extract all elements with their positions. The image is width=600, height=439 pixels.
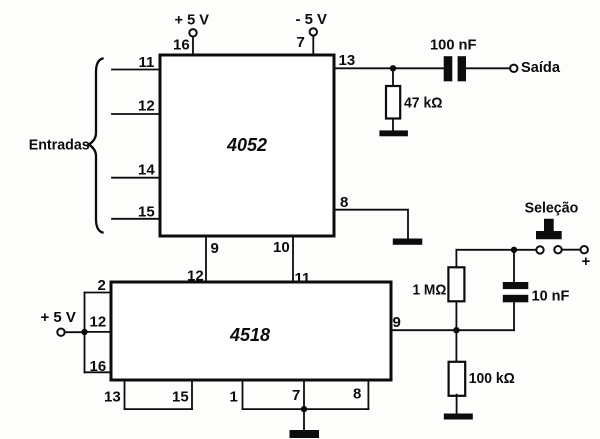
wire input pin 11 [112, 69, 160, 71]
wire junction to resistor R1 [392, 72, 394, 87]
svg-text:14: 14 [138, 162, 155, 179]
wire node up to R2 [455, 250, 457, 267]
wire U1 pin 9 to U2 pin 12 [205, 236, 207, 282]
wire pin 8 stub down [367, 380, 369, 409]
terminal Saída [510, 65, 517, 72]
svg-text:16: 16 [90, 358, 107, 375]
wire +5V bus (U2 left) [84, 293, 86, 373]
wire pin 2 stub [85, 292, 112, 294]
resistor R3 100k body [449, 362, 466, 396]
switch S1 contact left [536, 246, 543, 253]
terminal + supply [581, 246, 588, 253]
wire pin 7 stub down [303, 380, 305, 409]
wire node down to R3 [455, 330, 457, 362]
ground (U2) [290, 430, 320, 438]
wire R1 to ground [392, 119, 394, 131]
wire pin 12 stub [85, 331, 112, 333]
wire R3 to ground [456, 395, 458, 414]
svg-text:13: 13 [339, 52, 356, 69]
svg-text:100 kΩ: 100 kΩ [469, 370, 515, 387]
wire pin 7 stub [312, 36, 314, 55]
wire pin 16 stub [192, 37, 194, 55]
svg-text:9: 9 [211, 240, 219, 257]
wire top rail [456, 249, 536, 251]
terminal +5V (U2) [57, 329, 64, 336]
wire capacitor to output terminal [466, 67, 510, 69]
terminal -5V (top) [310, 28, 317, 35]
svg-text:1: 1 [230, 389, 238, 406]
junction pin7/ground [301, 406, 307, 412]
svg-text:16: 16 [173, 37, 190, 54]
wire pin 1 stub down [242, 380, 244, 409]
svg-text:47 kΩ: 47 kΩ [404, 95, 443, 112]
wire input pin 12 [112, 113, 160, 115]
svg-text:- 5 V: - 5 V [296, 11, 328, 28]
wire pin 15 stub down [191, 380, 193, 409]
svg-text:4518: 4518 [229, 325, 270, 345]
svg-text:10 nF: 10 nF [532, 288, 570, 305]
svg-text:+: + [582, 253, 591, 270]
wire bracket 13-15 [125, 408, 193, 410]
capacitor C1 100nF plates [444, 56, 453, 81]
svg-text:8: 8 [353, 386, 361, 403]
svg-text:13: 13 [104, 389, 121, 406]
resistor R2 1M body [448, 267, 464, 301]
wire pin 8 to ground [334, 210, 408, 239]
wire bracket 1-7-8 [243, 408, 369, 410]
svg-text:1 MΩ: 1 MΩ [413, 282, 447, 299]
wire R2 to node [455, 301, 457, 330]
svg-text:9: 9 [393, 314, 401, 331]
svg-text:+ 5 V: + 5 V [175, 11, 210, 28]
svg-text:15: 15 [172, 389, 189, 406]
ground (R1) [379, 130, 408, 136]
svg-text:12: 12 [90, 314, 107, 331]
capacitor C2 10nF plates [503, 282, 529, 289]
wire input pin 15 [112, 218, 160, 220]
junction pin13/R47k [390, 65, 396, 71]
ground (R3) [444, 414, 473, 420]
wire contact to terminal [562, 249, 581, 251]
junction bus/pin12 [81, 329, 87, 335]
svg-text:15: 15 [138, 204, 155, 221]
wire C2 to node [513, 302, 515, 330]
svg-text:11: 11 [139, 54, 155, 71]
wire pin 16 stub (U2) [85, 371, 112, 373]
junction rail/C2 [511, 247, 517, 253]
svg-text:100 nF: 100 nF [430, 37, 477, 54]
wire U1 pin 10 to U2 pin 11 [292, 236, 294, 282]
svg-text:10: 10 [273, 239, 290, 256]
wire pin7 junction to ground [303, 409, 305, 430]
wire pin 13 stub down [124, 380, 126, 409]
svg-text:12: 12 [138, 98, 155, 115]
svg-text:7: 7 [292, 387, 300, 404]
wire pin 9 net [391, 329, 514, 331]
switch S1 contact right [554, 246, 561, 253]
wire pin 13 to capacitor [334, 67, 444, 69]
op-amp U2 4518 body [111, 282, 391, 380]
svg-text:Seleção: Seleção [525, 200, 579, 217]
wire input pin 14 [112, 177, 160, 179]
svg-text:8: 8 [340, 194, 348, 211]
svg-text:+ 5 V: + 5 V [41, 309, 76, 326]
terminal +5V (top) [189, 29, 196, 36]
resistor R1 47k body [386, 86, 400, 119]
svg-text:Saída: Saída [521, 59, 561, 76]
op-amp U1 4052 body [160, 55, 334, 236]
brace Entradas [89, 59, 103, 233]
svg-text:7: 7 [297, 34, 305, 51]
svg-text:4052: 4052 [226, 135, 267, 155]
svg-text:2: 2 [98, 277, 106, 294]
ground (pin 8) [393, 239, 423, 245]
switch S1 button actuator [536, 219, 562, 240]
junction node RC [453, 327, 459, 333]
svg-text:Entradas: Entradas [29, 137, 90, 154]
wire terminal to bus [65, 331, 85, 333]
wire rail to C2 [513, 250, 515, 282]
